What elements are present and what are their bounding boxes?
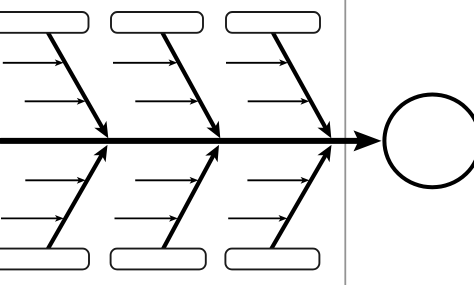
branch arrow bottom-1 [48, 145, 108, 249]
sub-arrow bottom-3b [228, 215, 287, 222]
branch arrow bottom-3 [271, 145, 331, 249]
cause box bottom-3 [225, 249, 319, 270]
sub-arrow top-1a [3, 59, 64, 66]
cause box top-3 [226, 12, 320, 33]
sub-arrow bottom-1a [25, 177, 85, 184]
branch arrow top-3 [273, 32, 332, 138]
branch arrow top-1 [48, 32, 109, 138]
sub-arrow top-1b [25, 98, 86, 105]
sub-arrow top-3b [248, 98, 310, 105]
sub-arrow bottom-2a [135, 177, 198, 184]
sub-arrow bottom-3a [247, 177, 309, 184]
effect circle [384, 95, 474, 188]
cause box top-2 [111, 12, 203, 33]
branch arrow top-2 [162, 32, 220, 138]
spine arrow [1, 130, 382, 151]
sub-arrow top-3a [226, 59, 288, 66]
sub-arrow bottom-2b [115, 215, 178, 222]
cause box bottom-1 [0, 249, 89, 270]
cause box bottom-2 [111, 249, 206, 270]
sub-arrow top-2a [113, 59, 177, 66]
cause box top-1 [0, 12, 89, 33]
divider line [344, 0, 346, 285]
sub-arrow bottom-1b [1, 215, 64, 222]
sub-arrow top-2b [135, 98, 198, 105]
branch arrow bottom-2 [163, 145, 219, 249]
